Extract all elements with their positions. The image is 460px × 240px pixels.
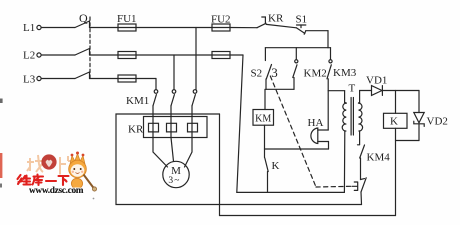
svg-text:T: T (349, 83, 356, 95)
svg-text:FU1: FU1 (117, 13, 137, 25)
svg-text:L1: L1 (23, 22, 35, 34)
svg-text:VD2: VD2 (427, 116, 448, 128)
KR heater (149, 117, 154, 138)
linked contact (S2) (361, 178, 365, 181)
wire (230, 27, 257, 29)
watermark text (18, 175, 69, 186)
wire (382, 90, 419, 92)
svg-text:VD1: VD1 (366, 75, 387, 87)
svg-text:KR: KR (128, 124, 144, 136)
wire (266, 88, 294, 90)
motor M (163, 161, 189, 187)
wire (41, 54, 75, 56)
wire (343, 131, 345, 192)
wire (359, 91, 361, 103)
svg-text:KR: KR (268, 13, 284, 25)
wire (41, 78, 75, 80)
wire (327, 79, 329, 130)
wire (90, 78, 119, 80)
svg-text:www.dzsc.com: www.dzsc.com (29, 186, 84, 196)
wire (173, 55, 175, 90)
mascot (69, 152, 97, 192)
svg-text:L2: L2 (23, 50, 35, 62)
wire (230, 54, 243, 56)
scan mark (0, 153, 2, 178)
relay K (395, 91, 397, 114)
svg-text:KM1: KM1 (126, 95, 149, 107)
wire (171, 138, 174, 162)
wire (237, 55, 243, 192)
coil KM (264, 89, 266, 109)
watermark logo (18, 152, 97, 197)
wire (220, 215, 396, 217)
scan mark (93, 198, 95, 200)
svg-text:HA: HA (308, 117, 324, 129)
wire (136, 27, 212, 29)
svg-text:KM4: KM4 (367, 152, 391, 164)
svg-text:KM2: KM2 (304, 68, 327, 80)
wire (266, 24, 296, 27)
svg-text:K: K (272, 160, 280, 172)
wire (153, 138, 168, 168)
wire (195, 28, 197, 90)
wire (136, 54, 212, 56)
wire (396, 140, 420, 142)
wire (328, 90, 344, 92)
KR heater (167, 117, 172, 138)
wire (90, 27, 119, 29)
wire (185, 138, 193, 168)
svg-text:KM: KM (255, 114, 271, 125)
wire (306, 30, 328, 32)
svg-text:KM3: KM3 (333, 67, 357, 79)
linkage (dashed) (270, 76, 316, 187)
wire (264, 125, 266, 149)
svg-text:K: K (390, 116, 398, 128)
wire (265, 47, 330, 49)
wire (265, 79, 267, 89)
svg-text:L3: L3 (23, 74, 36, 86)
wire (41, 27, 75, 29)
wire (237, 191, 345, 193)
wire (327, 31, 329, 48)
scan mark (0, 99, 3, 104)
wire (136, 78, 156, 80)
wire (155, 79, 157, 90)
svg-text:3: 3 (271, 65, 278, 80)
svg-text:S2: S2 (251, 68, 263, 80)
svg-text:S1: S1 (296, 14, 308, 26)
KR heater (188, 117, 193, 138)
svg-text:3~: 3~ (168, 176, 180, 186)
machine enclosure (116, 114, 362, 205)
scan mark (0, 184, 2, 188)
wire (265, 148, 329, 150)
wire (90, 54, 119, 56)
